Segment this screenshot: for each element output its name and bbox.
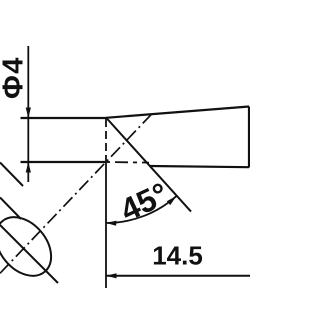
svg-text:14.5: 14.5	[152, 241, 203, 271]
svg-text:Φ4: Φ4	[0, 56, 30, 99]
